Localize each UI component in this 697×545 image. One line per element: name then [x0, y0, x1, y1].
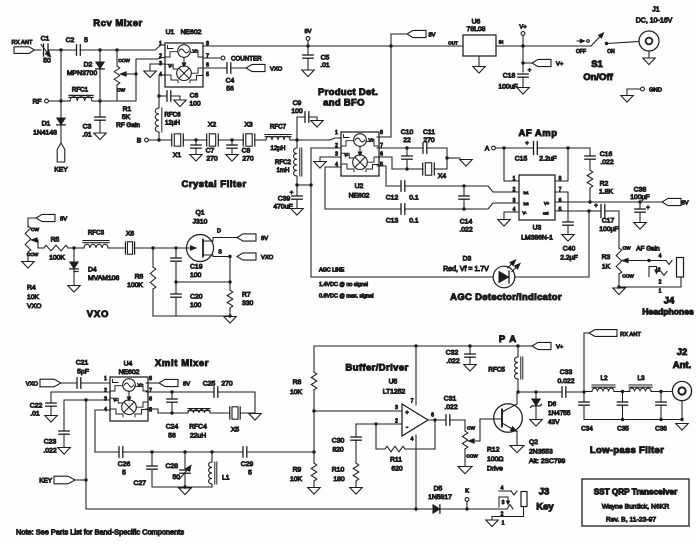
- svg-text:100µF: 100µF: [599, 226, 618, 233]
- wire U5 pin3 input: [314, 410, 402, 412]
- wire VXO bottom rail: [153, 315, 230, 317]
- svg-text:56: 56: [168, 433, 176, 440]
- svg-text:270: 270: [221, 381, 233, 388]
- resistor R9 10K: [290, 463, 317, 487]
- svg-text:+: +: [528, 68, 532, 74]
- connector RX ANT flag (PA): [589, 330, 641, 338]
- capacitor C20 100: [171, 282, 203, 316]
- svg-text:8V: 8V: [428, 33, 435, 39]
- node junction R1 top: [115, 48, 118, 51]
- svg-text:270: 270: [206, 156, 218, 163]
- svg-text:3: 3: [502, 500, 505, 506]
- wire U2 pin5 to C12: [377, 166, 401, 186]
- wire U4 pin3 to C23: [64, 400, 110, 431]
- svg-text:AGC Detector/Indicator: AGC Detector/Indicator: [450, 292, 562, 303]
- svg-text:C16: C16: [600, 151, 613, 158]
- svg-text:C1: C1: [41, 36, 50, 43]
- svg-text:5: 5: [122, 470, 126, 477]
- wire U5 output: [428, 419, 446, 421]
- svg-text:RF: RF: [32, 99, 41, 106]
- wire X2 to X3: [218, 139, 243, 141]
- ground below C23: [58, 448, 70, 455]
- svg-text:C2: C2: [66, 37, 75, 44]
- svg-text:100uF: 100uF: [498, 84, 517, 91]
- svg-text:D2: D2: [84, 62, 93, 69]
- node junction RFC6/B-line: [157, 138, 160, 141]
- svg-text:C20: C20: [190, 294, 203, 301]
- wire LED to audio-out node: [515, 211, 589, 277]
- section title Buffer/Driver: [345, 363, 408, 374]
- capacitor C28 50 (trimmer): [166, 452, 193, 487]
- svg-text:.01: .01: [320, 62, 330, 69]
- capacitor C31 .022: [444, 396, 465, 432]
- node V+ (top): [519, 25, 527, 47]
- capacitor C25 270: [203, 381, 255, 414]
- svg-text:6: 6: [559, 198, 562, 204]
- label R12 value: [487, 447, 503, 473]
- svg-text:Alt: 2SC799: Alt: 2SC799: [529, 458, 565, 465]
- wire up to C9: [297, 117, 305, 140]
- svg-text:CW: CW: [31, 227, 39, 233]
- svg-text:-: -: [406, 425, 409, 432]
- svg-text:620: 620: [391, 466, 403, 473]
- svg-text:820: 820: [332, 447, 344, 454]
- wire 8V rail U1 pin8 to U6: [203, 45, 463, 47]
- wire U5 pin7 to rail: [415, 346, 417, 405]
- label J3 Key: [536, 487, 554, 513]
- inductor RFC1: [61, 87, 100, 102]
- ground at U2 pin3: [314, 157, 341, 168]
- wire J2 to ground rail: [681, 401, 683, 420]
- svg-text:2: 2: [104, 388, 107, 394]
- op-amp U2 NE602 product detector: [341, 132, 379, 200]
- capacitor C1 (trimmer): [41, 36, 53, 65]
- label R3 value: [602, 246, 661, 271]
- connector VXO flag (Q1 source): [237, 253, 274, 261]
- svg-text:VXO: VXO: [261, 255, 274, 261]
- svg-text:10K: 10K: [290, 476, 303, 483]
- svg-text:1K: 1K: [602, 264, 611, 271]
- svg-text:6: 6: [149, 397, 152, 403]
- capacitor C40 2.2uF: [555, 192, 578, 262]
- svg-text:VXO: VXO: [26, 382, 39, 388]
- ground below C38: [634, 223, 646, 230]
- svg-text:C19: C19: [190, 264, 203, 271]
- svg-text:AF Amp: AF Amp: [518, 128, 557, 139]
- note text: [16, 528, 184, 537]
- pin numbers U3: [513, 176, 562, 213]
- svg-text:8V: 8V: [304, 29, 311, 35]
- ground below J2/LPF rail: [676, 424, 688, 431]
- svg-text:8V: 8V: [261, 236, 268, 242]
- node junction pin7 rail: [414, 344, 417, 347]
- svg-text:C39: C39: [278, 196, 291, 203]
- svg-text:out: out: [543, 212, 549, 216]
- svg-text:.022: .022: [446, 358, 459, 365]
- capacitor C29 5: [212, 447, 314, 477]
- node GND input: [627, 87, 662, 95]
- svg-text:X4: X4: [438, 173, 447, 180]
- inductor L1: [209, 452, 230, 487]
- svg-text:56: 56: [226, 86, 234, 93]
- svg-text:100K: 100K: [49, 255, 65, 262]
- svg-text:L1: L1: [222, 475, 230, 482]
- transistor Q2 2N3553: [480, 392, 522, 445]
- wire U4 pin4 to C26: [95, 410, 119, 452]
- section title AF Amp: [518, 128, 557, 139]
- potentiometer R4 10K VXO: [25, 226, 43, 261]
- svg-text:VXO: VXO: [87, 309, 109, 320]
- amplifier U3 LM386N-1: [519, 175, 555, 242]
- svg-text:X1: X1: [173, 152, 182, 159]
- ground below D6: [530, 420, 542, 427]
- svg-text:CCW: CCW: [118, 58, 130, 64]
- inductor RFC7 12uH: [265, 124, 297, 153]
- svg-text:3: 3: [395, 405, 398, 411]
- node junction C19/C20: [174, 280, 177, 283]
- svg-text:C36: C36: [655, 426, 667, 433]
- svg-text:2: 2: [659, 280, 662, 286]
- wire C19-C20 node to source node: [176, 281, 230, 283]
- ground below C18: [517, 88, 529, 95]
- svg-text:5: 5: [149, 408, 152, 414]
- svg-text:100Ω: 100Ω: [487, 456, 503, 463]
- svg-text:X2: X2: [208, 122, 217, 129]
- diode D5 1N5817: [428, 486, 507, 514]
- wire U1 pin4 to RFC6: [159, 75, 165, 108]
- node A: [485, 146, 534, 153]
- svg-text:12µH: 12µH: [271, 145, 286, 152]
- node junction U5 pin4 rail: [414, 507, 417, 510]
- svg-text:5K: 5K: [122, 114, 131, 121]
- svg-text:X6: X6: [126, 231, 135, 238]
- svg-text:R6: R6: [135, 274, 144, 281]
- svg-text:Ant.: Ant.: [673, 360, 691, 371]
- wire key bottom rail: [86, 508, 433, 510]
- svg-text:S: S: [218, 250, 222, 256]
- wire AGC branch: [297, 184, 311, 186]
- svg-text:RFC3: RFC3: [88, 230, 105, 237]
- node junction C7: [194, 138, 197, 141]
- node junction KEY line top: [84, 398, 87, 401]
- ground below C40: [562, 235, 574, 242]
- switch S1 On/Off: [576, 32, 639, 55]
- svg-text:GND: GND: [649, 88, 662, 94]
- key jack J3: [492, 486, 527, 527]
- svg-text:1: 1: [159, 41, 162, 47]
- node junction AGC takeoff: [295, 183, 298, 186]
- section title Crystal Filter: [181, 179, 246, 190]
- node B: [137, 138, 171, 145]
- svg-text:12µH: 12µH: [165, 120, 180, 127]
- svg-text:A: A: [485, 146, 490, 153]
- wire X3 to RFC7: [255, 139, 266, 141]
- svg-text:0.022: 0.022: [557, 378, 574, 385]
- svg-text:J4: J4: [664, 296, 675, 307]
- inductor RFC4 22uH: [172, 409, 229, 440]
- svg-text:1N4755: 1N4755: [548, 410, 571, 417]
- connector 8V flag (VXO): [28, 214, 67, 227]
- label AGC voltages: [319, 282, 374, 300]
- title block text: [594, 488, 678, 524]
- svg-text:ON: ON: [607, 49, 615, 55]
- connector V+ flag (PA): [518, 342, 564, 350]
- svg-text:C34: C34: [581, 426, 593, 433]
- wire RX ANT to C1: [35, 49, 42, 51]
- svg-text:U5: U5: [389, 379, 398, 386]
- label R1 value: [116, 106, 140, 129]
- svg-text:5pF: 5pF: [77, 369, 89, 376]
- section title Xmit Mixer: [155, 358, 209, 369]
- svg-text:KEY: KEY: [39, 478, 53, 485]
- ground below R9: [308, 488, 320, 495]
- capacitor C4 56: [203, 63, 246, 93]
- svg-text:C5: C5: [321, 55, 330, 62]
- svg-text:RFC4: RFC4: [189, 424, 207, 431]
- wire U3 pin5 out: [555, 210, 601, 212]
- svg-text:V-: V-: [523, 211, 528, 216]
- connector RX ANT flag: [12, 40, 35, 53]
- svg-text:On/Off: On/Off: [583, 72, 613, 83]
- capacitor C11 270: [423, 129, 447, 169]
- svg-text:2N3553: 2N3553: [529, 449, 553, 456]
- wire C1 to junction: [48, 49, 61, 51]
- svg-text:U3: U3: [533, 225, 542, 232]
- label J4 Headphones: [642, 296, 694, 317]
- svg-text:RF Gain: RF Gain: [116, 122, 140, 129]
- svg-text:LM386N-1: LM386N-1: [521, 235, 553, 242]
- potentiometer R1 5K RF Gain: [114, 50, 136, 101]
- connector VXO flag (from U1 pin6): [246, 64, 283, 72]
- wire X1 to X2: [183, 139, 206, 141]
- svg-text:C29: C29: [241, 461, 254, 468]
- svg-text:1.8K: 1.8K: [599, 189, 613, 196]
- svg-text:Drive: Drive: [487, 466, 503, 473]
- svg-text:1N5817: 1N5817: [428, 494, 452, 501]
- svg-text:R7: R7: [242, 292, 251, 299]
- svg-text:.022: .022: [459, 227, 472, 234]
- svg-text:J1: J1: [652, 7, 660, 14]
- svg-text:1: 1: [335, 130, 338, 136]
- capacitor C16 .022: [585, 151, 614, 170]
- svg-text:0.1: 0.1: [409, 195, 419, 202]
- node junction C11/gnd branch: [445, 156, 448, 159]
- svg-text:B: B: [137, 138, 142, 145]
- svg-text:in1: in1: [524, 191, 529, 195]
- capacitor C32 .022: [446, 344, 475, 365]
- svg-text:2.2uF: 2.2uF: [539, 156, 556, 163]
- svg-text:10K: 10K: [290, 389, 303, 396]
- node junction Q1 source: [228, 255, 231, 258]
- svg-text:V+: V+: [556, 62, 564, 68]
- capacitor C38 100uF: [630, 187, 650, 223]
- label Q1 terminals: [217, 229, 222, 256]
- svg-text:V+: V+: [519, 25, 527, 31]
- svg-text:22uH: 22uH: [190, 433, 206, 440]
- node junction RF/D1: [59, 99, 62, 102]
- svg-text:1: 1: [502, 521, 505, 527]
- svg-text:8V: 8V: [183, 382, 190, 388]
- svg-text:U6: U6: [472, 19, 481, 26]
- pin numbers U2: [335, 130, 383, 168]
- svg-text:AF Gain: AF Gain: [636, 246, 660, 253]
- svg-text:in2: in2: [524, 202, 529, 206]
- svg-text:2.2µF: 2.2µF: [560, 255, 578, 262]
- connector 8V flag (AF amp): [662, 198, 689, 206]
- capacitor C19 100: [171, 248, 203, 282]
- capacitor C18 100uF: [498, 68, 531, 91]
- ground below R10: [350, 488, 362, 495]
- svg-text:C18: C18: [503, 73, 516, 80]
- capacitor C12 0.1: [386, 181, 464, 202]
- capacitor C34: [579, 392, 594, 433]
- crystal X3: [243, 122, 255, 147]
- potentiometer R12 100 Drive: [462, 419, 502, 466]
- capacitor C5 .01: [303, 46, 330, 69]
- capacitor C36: [655, 392, 667, 433]
- node junction C8: [230, 138, 233, 141]
- node junction L1 top: [210, 450, 213, 453]
- wire U2 pin6 to X4: [377, 157, 423, 169]
- capacitor C35: [617, 392, 629, 433]
- section title Product Det. and BFO: [318, 87, 378, 109]
- svg-text:7: 7: [149, 388, 152, 394]
- svg-text:J2: J2: [677, 347, 688, 358]
- svg-text:CCW: CCW: [27, 252, 39, 258]
- svg-text:C9: C9: [293, 100, 302, 107]
- wire AGC line horizontal: [311, 276, 493, 278]
- svg-text:50: 50: [43, 58, 51, 65]
- node junction C5: [306, 44, 309, 47]
- wire U4 pin7 line: [146, 391, 214, 393]
- capacitor C13 0.1: [386, 204, 464, 225]
- capacitor C23 .022: [43, 431, 69, 455]
- wire U5 pin2 line: [356, 423, 402, 425]
- svg-text:R4: R4: [27, 285, 36, 292]
- ground below U6: [473, 56, 485, 73]
- svg-text:X3: X3: [244, 122, 253, 129]
- label S1 On/Off: [583, 59, 613, 83]
- svg-text:R10: R10: [332, 467, 345, 474]
- svg-text:RX ANT: RX ANT: [12, 40, 33, 46]
- svg-text:CCW: CCW: [466, 454, 478, 460]
- svg-text:NE602: NE602: [119, 369, 140, 376]
- svg-text:8: 8: [559, 176, 562, 182]
- svg-text:Red, Vf = 1.7V: Red, Vf = 1.7V: [443, 266, 489, 273]
- section title VXO: [87, 309, 109, 320]
- svg-text:R5: R5: [51, 237, 60, 244]
- node junction R2/8V line: [588, 200, 591, 203]
- capacitor C8 270: [226, 140, 254, 163]
- node junction R1 wiper: [134, 72, 137, 75]
- svg-text:C21: C21: [76, 360, 89, 367]
- capacitor C33 0.022: [557, 369, 584, 397]
- section title Rcv Mixer: [93, 18, 142, 29]
- connector 8V flag (to U2 area): [391, 30, 436, 38]
- wire U2 pin7 to C10/C11: [377, 147, 423, 149]
- svg-text:8: 8: [380, 130, 383, 136]
- wire U2 pin2 to AGC vertical: [311, 147, 341, 149]
- resistor R5 100K: [44, 237, 84, 262]
- wire C12 line to U3 pin2: [464, 186, 519, 192]
- svg-text:R2: R2: [600, 181, 609, 188]
- wire U2 pin8 up: [377, 136, 391, 138]
- wire U4 pin5 to RFC4: [146, 409, 172, 413]
- capacitor C9 100: [291, 100, 323, 127]
- node junction source/R7: [228, 280, 231, 283]
- svg-text:S1: S1: [591, 59, 603, 70]
- svg-text:100: 100: [190, 302, 202, 309]
- svg-text:C6: C6: [190, 93, 199, 100]
- node junction LPF gnd: [621, 418, 684, 421]
- svg-text:C32: C32: [446, 350, 459, 357]
- svg-text:and BFO: and BFO: [323, 98, 365, 109]
- svg-text:C11: C11: [423, 129, 435, 136]
- svg-text:C24: C24: [166, 424, 179, 431]
- svg-text:8V: 8V: [60, 217, 67, 223]
- svg-text:1: 1: [513, 176, 516, 182]
- svg-text:C8: C8: [242, 148, 251, 155]
- node junction C29 line: [312, 450, 315, 453]
- wire junction down to RF line: [60, 50, 62, 101]
- pin numbers U5: [395, 399, 434, 443]
- svg-text:RX ANT: RX ANT: [620, 332, 641, 338]
- svg-text:NE602: NE602: [349, 193, 370, 200]
- svg-text:C23: C23: [44, 439, 57, 446]
- label AGC LINE: [319, 268, 345, 274]
- ground at U1 pin3: [144, 64, 165, 78]
- wire C15 to C16: [568, 148, 590, 155]
- title block box: [582, 479, 689, 526]
- LED D3 AGC indicator: [443, 256, 521, 288]
- svg-text:Q1: Q1: [195, 210, 204, 217]
- svg-text:IN: IN: [499, 40, 504, 45]
- svg-text:Note: See Parts List for Ban: Note: See Parts List for Band-Specific C…: [16, 528, 184, 537]
- svg-text:C17: C17: [602, 218, 615, 225]
- svg-text:C27: C27: [134, 480, 147, 487]
- node junction C13/C14: [462, 207, 465, 210]
- svg-text:180: 180: [333, 476, 345, 483]
- svg-text:U2: U2: [355, 183, 364, 190]
- wire buffer top rail: [314, 346, 518, 372]
- svg-text:.022: .022: [43, 448, 56, 455]
- wire C2 to U1 pin1: [80, 45, 165, 50]
- wire U3 pin6 to 8V: [555, 201, 662, 203]
- inductor L2: [584, 375, 630, 392]
- node junction C35: [621, 390, 624, 393]
- svg-text:C7: C7: [206, 148, 215, 155]
- node junction U5 pin3: [312, 409, 315, 412]
- transistor Q1 J310 JFET: [187, 210, 238, 262]
- svg-text:K: K: [465, 489, 469, 495]
- svg-text:1.4VDC @ no signal: 1.4VDC @ no signal: [319, 282, 368, 288]
- svg-text:10K: 10K: [27, 294, 40, 301]
- inductor RFC5: [488, 346, 523, 392]
- svg-text:J310: J310: [193, 219, 208, 226]
- node junction C3: [98, 99, 101, 102]
- wire LPF ground rail: [584, 419, 682, 421]
- ground below C6: [174, 100, 186, 107]
- svg-text:COUNTER: COUNTER: [231, 56, 262, 63]
- svg-text:.022: .022: [444, 404, 457, 411]
- node RF: [32, 99, 61, 106]
- svg-text:1N4148: 1N4148: [33, 130, 57, 137]
- wire U6 IN to switch: [496, 45, 591, 47]
- svg-text:.01: .01: [30, 411, 40, 418]
- wire RX ANT vertical: [584, 333, 589, 392]
- diode D1 1N4148: [33, 101, 65, 143]
- diode D2 MPN3700: [67, 50, 104, 101]
